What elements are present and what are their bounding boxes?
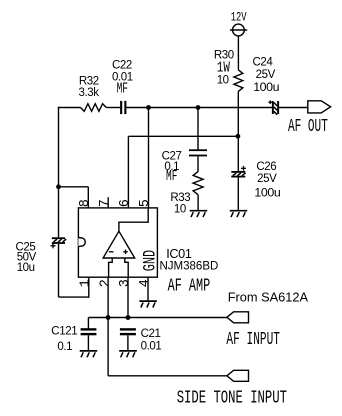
op-amp noninverting lead [125,258,128,277]
svg-text:4: 4 [138,279,153,287]
svg-text:R32: R32 [79,76,99,88]
op-amp plus sign [123,250,128,255]
node pin5 junction [146,105,151,110]
svg-text:C22: C22 [112,59,132,71]
svg-text:IC01: IC01 [166,247,192,261]
wire C121 to ground [87,335,89,351]
svg-text:AF OUT: AF OUT [288,115,328,137]
capacitor C24 [272,101,274,114]
node pin3 junction [126,315,131,320]
wire rail down left [58,108,60,238]
wire C24 to AF OUT [279,107,308,109]
svg-text:1W: 1W [217,59,230,76]
wire pin5 riser [148,108,150,209]
C26 plus sign [241,166,246,171]
ground C21 [119,351,137,357]
node pin8 branch junction [56,184,61,189]
wire node to C26 [237,136,239,171]
wire C27 to R33 [197,156,199,171]
wire AF input rail [88,317,227,319]
wire junction to pin8 [59,186,89,188]
svg-text:R33: R33 [170,192,190,204]
svg-text:2: 2 [98,279,113,287]
terminal AF OUT [308,101,331,113]
wire R32 to C22 [106,107,120,109]
svg-text:10: 10 [174,204,186,216]
svg-text:0.1: 0.1 [57,341,72,353]
wire bottom to pin1 [59,296,89,298]
wire pin4 to ground [147,277,149,301]
wire C22 to C24 [126,107,272,109]
wire C26 to ground [237,178,239,211]
capacitor C121 [81,328,97,330]
svg-text:MF: MF [166,168,177,185]
op-amp internal output wire [119,208,148,231]
wire pin3 down [127,277,129,318]
svg-text:1: 1 [79,279,94,287]
node C27 junction [196,105,201,110]
svg-text:C26: C26 [256,161,276,173]
wire node to C27 [197,108,199,150]
svg-text:12V: 12V [231,11,247,25]
wire R30 to node [237,91,239,136]
pin 7 stub [107,197,109,208]
svg-text:From SA612A: From SA612A [228,289,309,304]
wire side tone rail [108,375,227,377]
svg-text:0.01: 0.01 [141,340,162,352]
resistor R33 [193,172,203,195]
svg-text:5: 5 [138,199,153,207]
wire pin2 down [107,277,109,376]
wire pin6 riser [127,136,129,208]
capacitor C25 [52,237,65,239]
svg-text:10: 10 [217,75,229,87]
ground R33 [190,211,208,217]
svg-text:25V: 25V [257,173,277,185]
node R30 C26 junction [236,134,241,139]
IC01 notch [78,238,85,247]
terminal AF INPUT [227,312,249,323]
C25 plus sign [51,243,56,248]
resistor R32 [81,104,107,112]
wire rail to C121 [87,318,89,329]
svg-text:7: 7 [98,199,113,207]
ground C121 [80,351,98,357]
capacitor C27 [189,149,207,151]
svg-text:AF AMP: AF AMP [168,275,211,296]
svg-text:NJM386BD: NJM386BD [160,261,219,273]
capacitor C26 [231,171,245,173]
op-amp minus sign [109,251,114,253]
capacitor C21 [120,328,136,330]
wire 12V to R30 [237,36,239,70]
wire output rail left corner [58,106,60,109]
svg-text:C24: C24 [253,56,274,68]
svg-text:3.3k: 3.3k [79,87,100,99]
wire C25 down [58,244,60,297]
svg-text:3: 3 [118,279,133,287]
svg-text:8: 8 [78,199,93,207]
svg-text:100u: 100u [254,186,280,200]
resistor R30 [234,70,243,92]
wire C21 to ground [127,335,129,351]
wire pin8 riser [87,187,89,208]
svg-text:MF: MF [117,81,128,98]
C24 plus sign [268,100,272,104]
ground pin4 [139,301,157,307]
svg-text:GND: GND [139,250,160,271]
svg-text:C21: C21 [141,328,161,340]
wire R33 to ground [197,195,199,211]
node pin2 input junction [106,315,111,320]
capacitor C22 [120,101,122,114]
svg-text:10u: 10u [17,262,35,274]
wire rail to R32 [58,107,81,109]
svg-text:AF INPUT: AF INPUT [226,328,280,350]
svg-text:6: 6 [118,199,133,207]
svg-text:SIDE TONE INPUT: SIDE TONE INPUT [177,387,287,408]
terminal SIDE TONE INPUT [227,370,249,381]
op-amp inverting lead [109,258,113,277]
ground C26 [230,211,248,217]
svg-text:C121: C121 [51,325,77,337]
svg-text:100u: 100u [253,80,279,94]
op-amp triangle [103,231,135,258]
op-amp U IC01 body [78,208,157,277]
power symbol 12V [233,24,245,36]
